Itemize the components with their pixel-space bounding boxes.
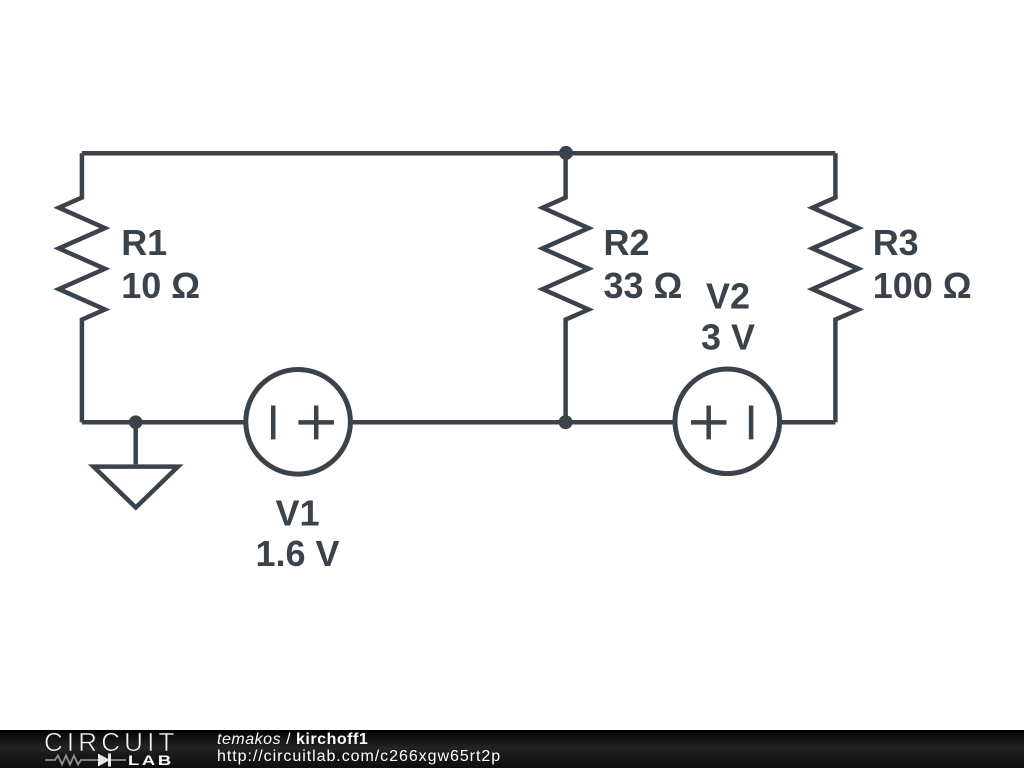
svg-text:V2: V2 [706, 276, 750, 317]
svg-text:10 Ω: 10 Ω [121, 265, 200, 306]
logo resistor-diode glyph [44, 752, 134, 768]
url line [217, 747, 501, 766]
footer bar [0, 730, 1024, 768]
logo LAB text [128, 752, 174, 768]
wire top net from R1 to R3 [82, 151, 836, 156]
svg-text:1.6 V: 1.6 V [255, 533, 339, 574]
voltage source V2 [675, 369, 780, 474]
wire bottom net from R1 to R3 [82, 420, 836, 425]
ground stub wire [133, 422, 138, 464]
resistor R1 [59, 153, 105, 422]
svg-text:R1: R1 [121, 222, 167, 263]
svg-text:V1: V1 [275, 493, 319, 534]
node junction top (R2/top net) [559, 146, 573, 160]
V2 polarity symbols [691, 406, 751, 440]
resistor R2 [543, 153, 589, 422]
ground [94, 467, 179, 508]
voltage source V1 [246, 370, 351, 475]
node junction ground [129, 415, 143, 429]
logo CIRCUIT text [44, 727, 179, 758]
resistor R3 [812, 153, 858, 422]
credit line [217, 730, 368, 749]
svg-text:100 Ω: 100 Ω [873, 265, 972, 306]
svg-text:R2: R2 [604, 222, 650, 263]
node junction bottom (R2/bottom net) [559, 415, 573, 429]
svg-text:33 Ω: 33 Ω [604, 265, 683, 306]
svg-text:3 V: 3 V [701, 317, 755, 358]
V1 polarity symbols [273, 406, 334, 440]
svg-text:R3: R3 [873, 222, 919, 263]
